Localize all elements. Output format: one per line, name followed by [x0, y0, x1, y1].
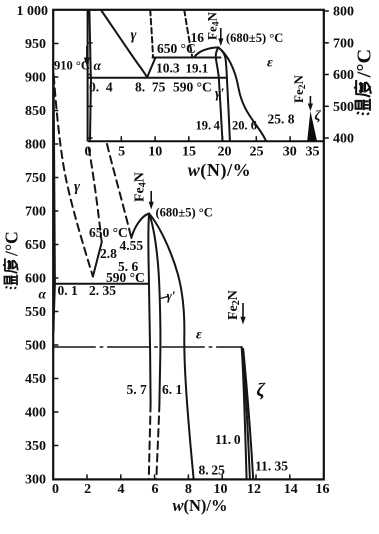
svg-text:850: 850	[25, 104, 46, 119]
svg-text:1 000: 1 000	[17, 4, 49, 19]
line: inset 650C isotherm	[153, 57, 221, 59]
svg-text:750: 750	[25, 171, 46, 186]
curve: epsilon left boundary lower	[149, 214, 194, 480]
svg-text:500: 500	[333, 100, 354, 115]
main x-axis ticks	[87, 474, 290, 479]
svg-text:w(N)/%: w(N)/%	[172, 496, 227, 515]
svg-text:α: α	[39, 287, 47, 302]
svg-text:300: 300	[25, 473, 46, 488]
inset x-axis ticks	[121, 136, 290, 141]
svg-text:γ: γ	[74, 179, 81, 195]
line: 500C dash-dot isotherm	[53, 346, 241, 348]
inset left border ticks	[88, 43, 93, 138]
main plot frame	[53, 10, 324, 480]
svg-text:8. 25: 8. 25	[199, 463, 226, 478]
curve: inset gamma-prime left boundary	[216, 47, 223, 141]
curve: zeta middle boundary	[242, 349, 250, 480]
main y-axis ticks	[53, 44, 58, 446]
svg-text:650: 650	[25, 238, 46, 253]
region: inset zeta filled wedge	[307, 111, 317, 141]
svg-text:11. 0: 11. 0	[215, 432, 241, 447]
inset right axis ticks	[324, 11, 329, 138]
arrow: Fe2N main	[240, 303, 245, 325]
svg-text:25. 8: 25. 8	[268, 112, 295, 127]
svg-text:8. 75: 8. 75	[135, 80, 166, 95]
svg-text:10: 10	[148, 145, 162, 160]
svg-text:590 °C: 590 °C	[173, 80, 212, 95]
curve: epsilon boundary rise to gamma-prime peak	[131, 214, 149, 239]
svg-text:500: 500	[25, 339, 46, 354]
line: inset 590C isotherm	[88, 77, 227, 79]
MAIN PLOT CURVES	[53, 74, 253, 479]
svg-text:20. 6: 20. 6	[232, 119, 257, 133]
arrow: inset Fe2N	[308, 96, 313, 111]
svg-text:ε: ε	[196, 328, 202, 343]
svg-text:400: 400	[333, 132, 354, 147]
arrow: Fe4N main	[149, 191, 154, 210]
svg-text:w(N)/%: w(N)/%	[188, 160, 252, 181]
svg-text:950: 950	[25, 37, 46, 52]
svg-text:α: α	[94, 58, 102, 73]
svg-text:ε: ε	[267, 56, 273, 71]
svg-text:0: 0	[52, 482, 59, 497]
curve: inset alpha solvus below 590	[90, 78, 91, 141]
svg-text:350: 350	[25, 439, 46, 454]
curve: gamma-prime right boundary dashed metastable	[156, 404, 159, 479]
pointer to gamma-prime	[161, 297, 168, 299]
svg-text:4: 4	[118, 482, 125, 497]
svg-text:10.3: 10.3	[156, 61, 180, 76]
svg-text:10: 10	[214, 482, 228, 497]
svg-text:11. 35: 11. 35	[255, 459, 288, 474]
svg-text:ζ: ζ	[257, 380, 266, 401]
svg-text:γ′: γ′	[215, 86, 225, 101]
svg-text:15: 15	[182, 145, 196, 160]
svg-text:γ: γ	[131, 28, 138, 44]
svg-text:14: 14	[284, 482, 298, 497]
curve: gamma left boundary dashed (alpha+gamma)/gamma	[54, 76, 93, 277]
svg-text:6: 6	[152, 482, 159, 497]
svg-text:19.1: 19.1	[186, 61, 209, 76]
arrow: 910C marker on inset border	[84, 46, 90, 67]
svg-text:600: 600	[333, 68, 354, 83]
INSET TEXT LABELS	[89, 12, 322, 133]
curve: gamma right boundary dashed above 650	[89, 148, 101, 237]
line: 590C eutectoid isotherm	[53, 283, 148, 285]
svg-text:ζ: ζ	[315, 109, 322, 124]
svg-text:2: 2	[84, 482, 91, 497]
curve: inset peak left branch	[194, 47, 218, 57]
curve: zeta right boundary	[243, 349, 253, 479]
svg-text:5. 7: 5. 7	[127, 382, 148, 397]
svg-text:900: 900	[25, 71, 46, 86]
svg-text:30: 30	[283, 145, 297, 160]
curve: alpha solvus below 590	[54, 284, 55, 333]
inset left border	[87, 10, 89, 141]
svg-text:0. 1: 0. 1	[58, 283, 79, 298]
MAIN PLOT TEXT LABELS	[39, 59, 289, 478]
svg-text:550: 550	[25, 305, 46, 320]
svg-text:8: 8	[185, 482, 192, 497]
svg-text:6. 1: 6. 1	[162, 382, 183, 397]
curve: inset gamma-prime right boundary	[218, 47, 230, 141]
curve: inset gamma left boundary	[101, 10, 147, 77]
curve: inset gamma right 650-590	[147, 58, 155, 78]
svg-text:4.55: 4.55	[120, 238, 144, 253]
curve: gamma-prime right boundary solid	[149, 214, 160, 405]
curve: inset epsilon left boundary	[218, 47, 266, 141]
svg-text:700: 700	[25, 205, 46, 220]
svg-text:800: 800	[25, 138, 46, 153]
svg-text:5: 5	[118, 145, 125, 160]
curve: gamma right boundary solid 650-590	[93, 237, 102, 277]
curve: zeta left boundary	[242, 347, 247, 479]
svg-text:2.8: 2.8	[100, 246, 117, 261]
svg-text:910 °C: 910 °C	[54, 59, 90, 73]
svg-text:450: 450	[25, 372, 46, 387]
axis title: right temperature (rotated)	[354, 49, 376, 115]
curve: gamma-prime left boundary solid	[148, 214, 150, 405]
arrow: inset Fe4N	[218, 28, 223, 46]
svg-text:0: 0	[85, 145, 92, 160]
svg-text:25: 25	[250, 145, 264, 160]
curve: inset gamma right boundary dashed	[150, 10, 153, 57]
svg-text:16: 16	[316, 482, 330, 497]
svg-text:(680±5) °C: (680±5) °C	[226, 31, 283, 45]
curve: alpha/(alpha+gamma) boundary hugging axis	[54, 74, 55, 284]
svg-text:800: 800	[333, 5, 354, 20]
svg-text:γ′: γ′	[167, 288, 176, 303]
svg-text:19. 4: 19. 4	[196, 119, 221, 133]
svg-text:12: 12	[247, 482, 261, 497]
svg-text:700: 700	[333, 36, 354, 51]
svg-text:35: 35	[306, 145, 320, 160]
inset bottom border	[88, 140, 324, 142]
curve: gamma-prime left boundary dashed metastable	[149, 404, 151, 479]
curve: epsilon left boundary dashed above 650	[107, 144, 131, 238]
axis title: left temperature (rotated)	[2, 231, 22, 289]
curve: inset alpha boundary hugging border	[89, 10, 90, 77]
svg-text:400: 400	[25, 406, 46, 421]
svg-text:0. 4: 0. 4	[89, 80, 113, 95]
curve: inset epsilon left dashed above 650	[184, 10, 192, 58]
svg-text:16: 16	[191, 30, 205, 45]
svg-text:(680±5) °C: (680±5) °C	[156, 206, 213, 220]
INSET CURVES	[88, 10, 266, 141]
svg-text:2. 35: 2. 35	[89, 283, 116, 298]
svg-text:20: 20	[218, 145, 232, 160]
svg-text:600: 600	[25, 272, 46, 287]
